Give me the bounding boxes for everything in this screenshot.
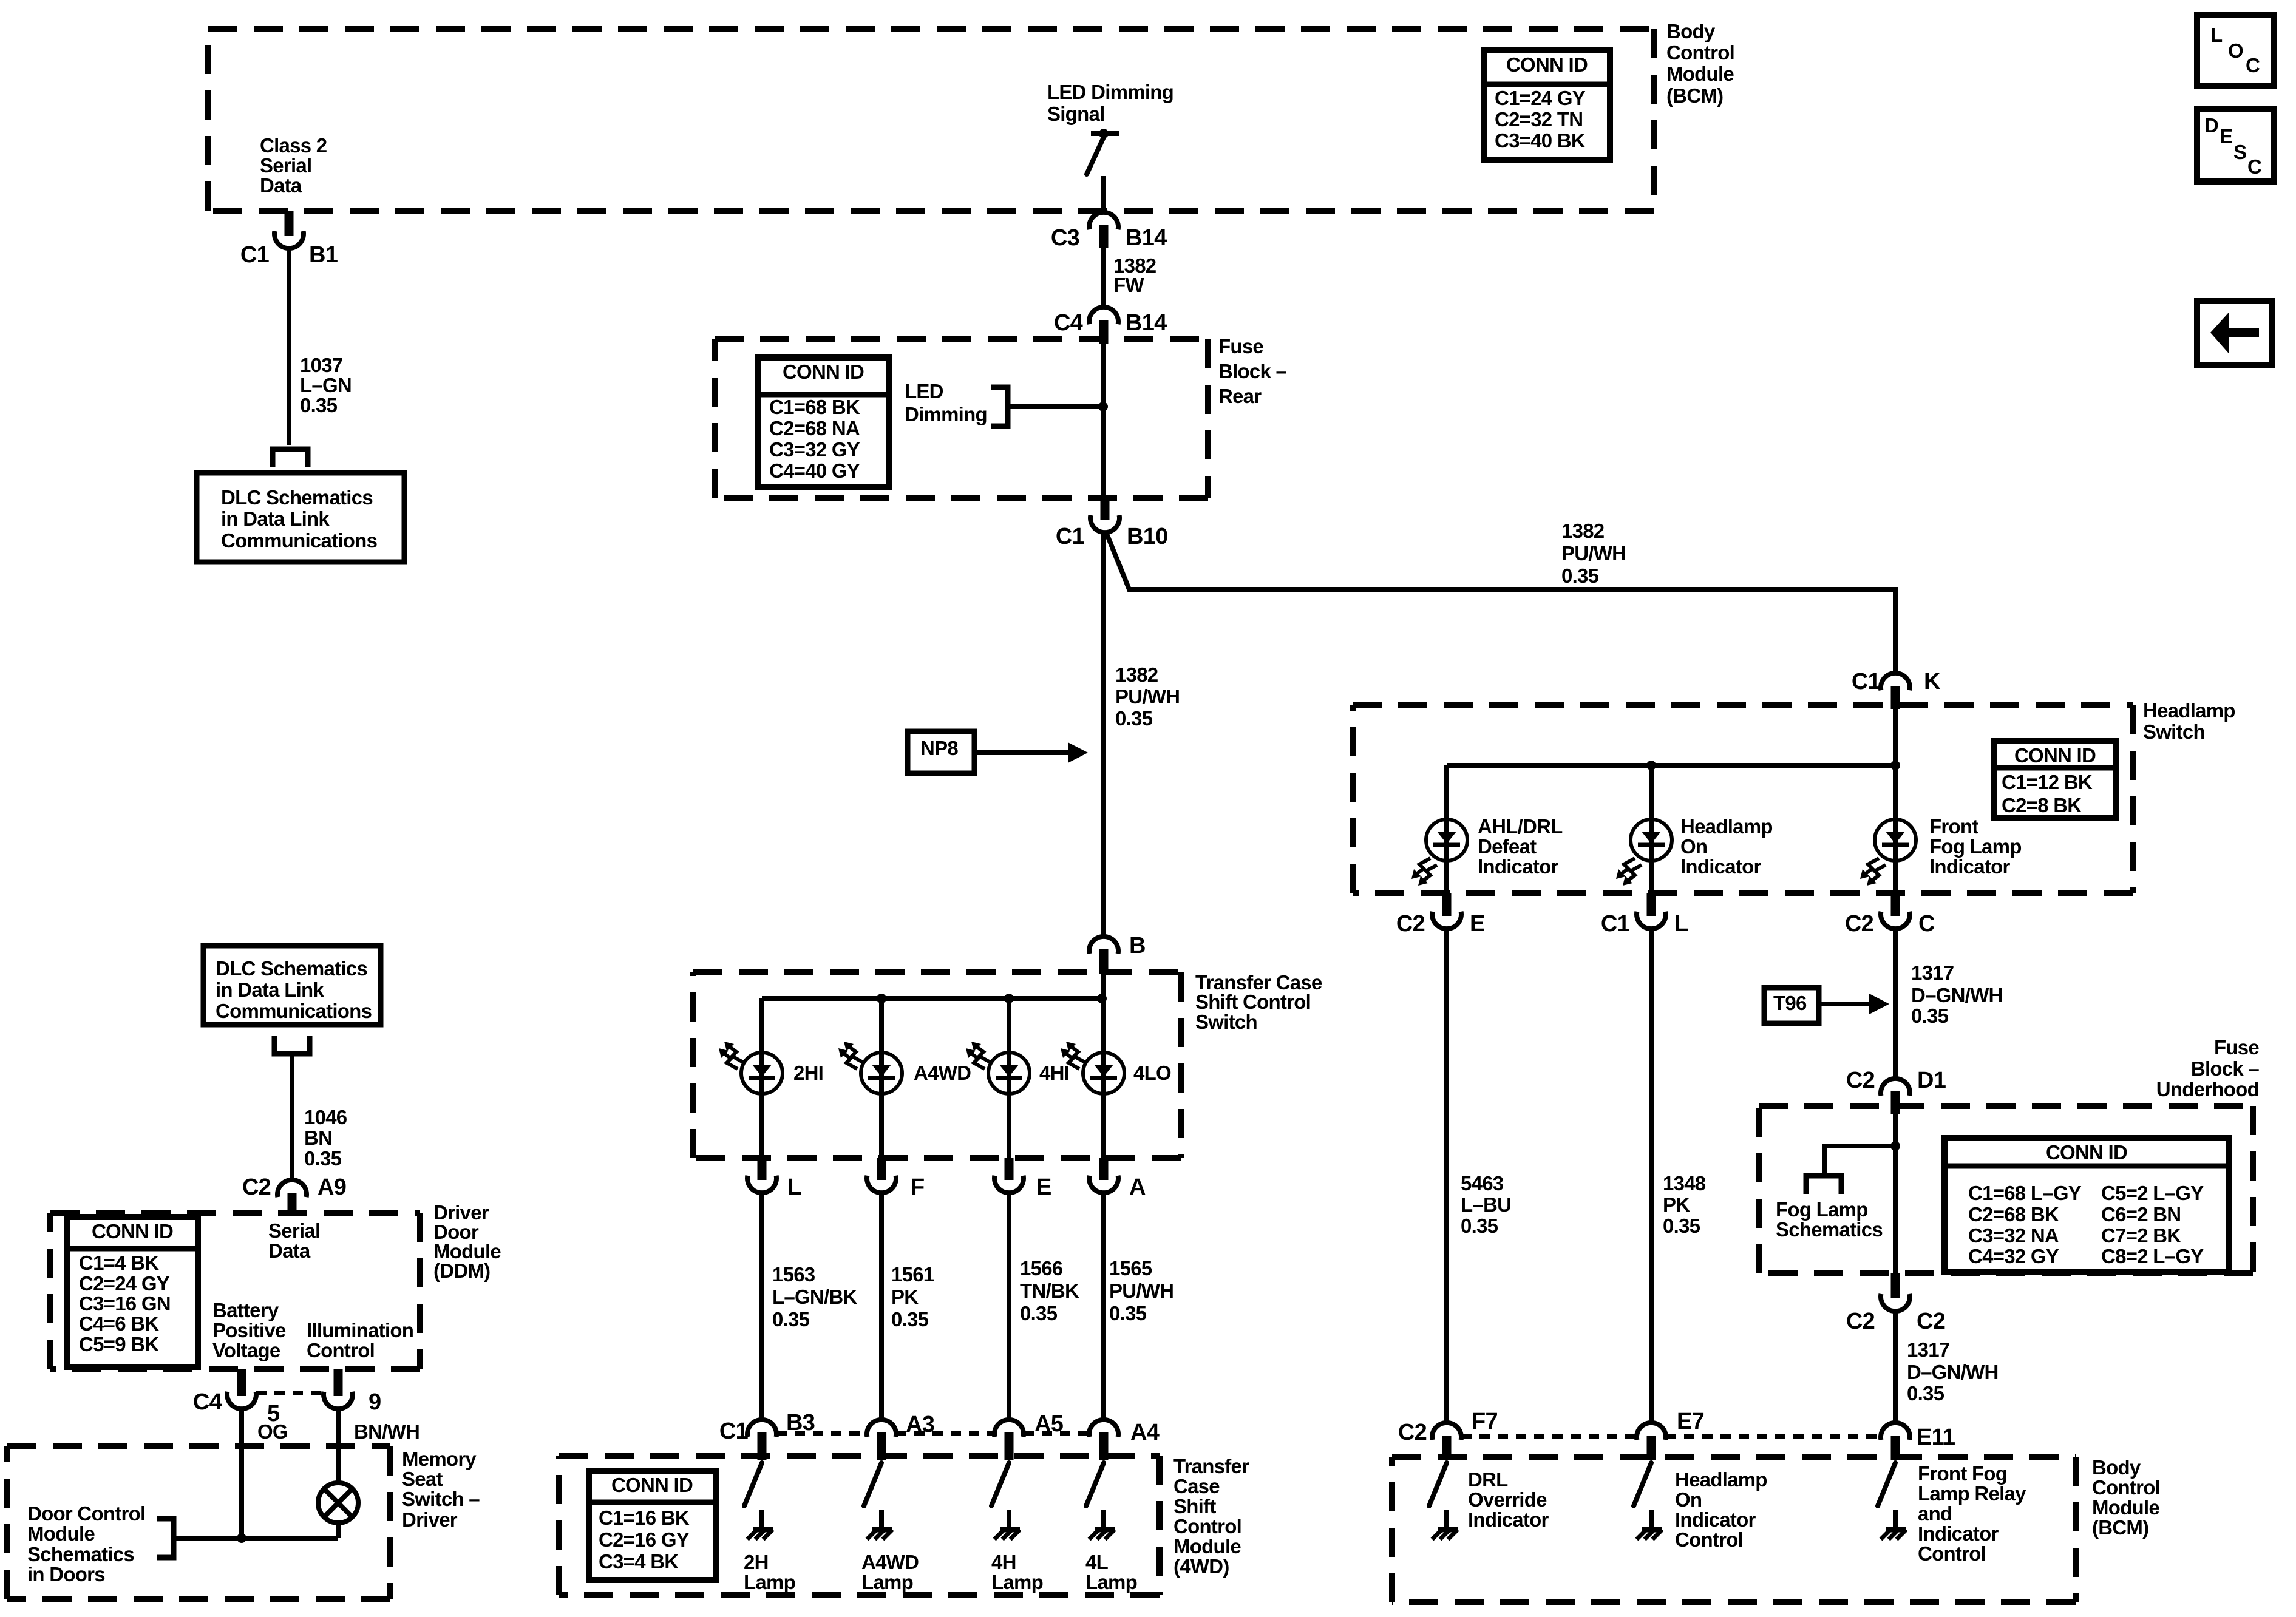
pin label 5 (267, 1401, 280, 1426)
wire: lamp to bus (336, 1523, 341, 1538)
svg-text:Signal: Signal (1047, 103, 1105, 125)
svg-text:Door Control: Door Control (27, 1502, 145, 1525)
pin label E7 (1677, 1409, 1704, 1434)
wire 9 BN/WH drop (336, 1409, 341, 1483)
svg-text:C3=32 GY: C3=32 GY (769, 438, 860, 461)
svg-text:A4WD: A4WD (861, 1551, 919, 1573)
label: Headlamp Switch (2143, 699, 2235, 743)
conn-id table: DDM (67, 1217, 198, 1367)
svg-text:LED Dimming: LED Dimming (1047, 81, 1173, 103)
svg-text:Headlamp: Headlamp (1675, 1468, 1767, 1491)
ground: headlamp on control (1637, 1510, 1662, 1539)
module box: Memory Seat Switch - Driver (7, 1446, 390, 1599)
svg-text:0.35: 0.35 (1911, 1005, 1949, 1027)
connector C2/A9 (277, 1180, 307, 1216)
svg-text:A4WD: A4WD (914, 1062, 971, 1084)
wire 1382 FW (1101, 248, 1106, 307)
svg-text:Class 2: Class 2 (260, 134, 327, 157)
svg-text:Indicator: Indicator (1478, 855, 1559, 878)
pin label C4 (DDM) (193, 1389, 222, 1415)
svg-text:Control: Control (307, 1339, 375, 1361)
svg-text:1046: 1046 (304, 1106, 347, 1128)
svg-text:C: C (2247, 155, 2261, 178)
svg-text:CONN ID: CONN ID (92, 1220, 173, 1242)
svg-text:Illumination: Illumination (307, 1319, 413, 1341)
arrow: NP8 to wire (974, 742, 1088, 763)
junction: A4WD tap (877, 994, 886, 1003)
svg-text:Dimming: Dimming (905, 403, 987, 425)
svg-text:C3=4 BK: C3=4 BK (599, 1550, 679, 1573)
pin label B10 (1127, 524, 1167, 549)
svg-text:D–GN/WH: D–GN/WH (1907, 1361, 1999, 1383)
LED: Headlamp On Indicator (1616, 819, 1672, 886)
svg-text:C2: C2 (242, 1175, 271, 1200)
svg-text:1382: 1382 (1115, 663, 1158, 686)
svg-text:Indicator: Indicator (1680, 855, 1762, 878)
dotted connector line: DDM bottom (256, 1391, 324, 1395)
lamp: memory seat illumination (318, 1483, 358, 1523)
pin label B (1129, 933, 1146, 958)
svg-text:Lamp: Lamp (744, 1571, 795, 1593)
switch: 2H lamp driver (744, 1463, 762, 1506)
connector F (867, 1158, 896, 1193)
svg-text:C1: C1 (1056, 524, 1085, 549)
wire label: 1565 PU/WH 0.35 (1109, 1257, 1173, 1324)
svg-text:C1=16 BK: C1=16 BK (599, 1507, 690, 1529)
svg-text:B1: B1 (309, 242, 338, 268)
ground: 2H lamp driver (747, 1510, 773, 1539)
LED: 4HI indicator (966, 1042, 1030, 1094)
wire: LED dimming bracket to node (1008, 404, 1101, 409)
svg-text:2HI: 2HI (793, 1062, 823, 1084)
svg-text:Voltage: Voltage (212, 1339, 280, 1361)
svg-text:DLC Schematics: DLC Schematics (216, 957, 367, 980)
svg-text:L: L (787, 1175, 801, 1200)
svg-text:C2: C2 (1846, 1068, 1875, 1093)
wire label: 1037 L-GN 0.35 (300, 354, 352, 416)
svg-text:0.35: 0.35 (772, 1308, 810, 1331)
svg-text:CONN ID: CONN ID (783, 361, 864, 383)
label: DRL Override Indicator (1468, 1468, 1549, 1531)
svg-text:Transfer: Transfer (1173, 1455, 1249, 1477)
wire: 4HI drop (1007, 998, 1011, 1158)
svg-text:2H: 2H (744, 1551, 769, 1573)
connector C1/B10 (1090, 497, 1119, 532)
svg-text:Battery: Battery (212, 1299, 279, 1321)
svg-text:CONN ID: CONN ID (2046, 1141, 2127, 1164)
svg-text:PU/WH: PU/WH (1109, 1280, 1173, 1302)
connector C2/F7 (1432, 1423, 1461, 1460)
wire 1037 L-GN vertical (287, 248, 291, 445)
connector C2/C (1881, 893, 1910, 929)
svg-text:C4=6 BK: C4=6 BK (79, 1312, 159, 1335)
svg-text:C1=24 GY: C1=24 GY (1495, 87, 1586, 109)
label: Fuse Block - Underhood (2156, 1036, 2260, 1100)
pin label L (787, 1175, 801, 1200)
wire label: 1561 PK 0.35 (891, 1263, 934, 1331)
connector C4/5 (227, 1369, 256, 1409)
svg-text:AHL/DRL: AHL/DRL (1478, 815, 1563, 838)
svg-text:C1=12 BK: C1=12 BK (2002, 771, 2093, 793)
connector E7 (1637, 1423, 1666, 1460)
wire label: 1382 PU/WH 0.35 (branch) (1561, 520, 1626, 587)
label: Body Control Module (BCM) bottom (2092, 1456, 2160, 1539)
svg-text:C1: C1 (240, 242, 270, 268)
callout box: NP8 (908, 731, 974, 773)
switch: 4H lamp driver (991, 1463, 1009, 1506)
svg-text:4L: 4L (1085, 1551, 1109, 1573)
wire inside fuse block rear (1101, 340, 1106, 498)
svg-text:C2: C2 (1845, 911, 1873, 937)
svg-text:Headlamp: Headlamp (2143, 699, 2235, 722)
wire label: OG (257, 1420, 288, 1443)
box: DLC Schematics in Data Link Communications (bottom) (203, 946, 381, 1025)
svg-text:Shift: Shift (1173, 1495, 1216, 1517)
connector A3 (867, 1420, 896, 1460)
pin label C1 (B10) (1056, 524, 1085, 549)
wire inside fuse block underhood (1893, 1114, 1898, 1273)
svg-text:B10: B10 (1127, 524, 1167, 549)
pin label B14 (lower) (1126, 310, 1167, 336)
pin label B14 (upper) (1126, 225, 1167, 251)
svg-text:E: E (2220, 125, 2232, 147)
svg-text:E7: E7 (1677, 1409, 1704, 1434)
LED: 4LO indicator (1061, 1042, 1124, 1094)
svg-text:Schematics: Schematics (27, 1543, 134, 1565)
label: A4WD (914, 1062, 971, 1084)
wire: K stub to bus (1893, 709, 1898, 765)
svg-text:PU/WH: PU/WH (1561, 542, 1626, 564)
svg-text:1563: 1563 (772, 1263, 815, 1286)
wire 5 OG drop (239, 1409, 244, 1538)
wire: 4LO drop (1101, 998, 1106, 1158)
label: AHL/DRL Defeat Indicator (1478, 815, 1563, 878)
switch: headlamp on control (1634, 1463, 1651, 1506)
svg-text:(4WD): (4WD) (1173, 1555, 1229, 1578)
pin label 9 (369, 1389, 381, 1415)
wire: headlamp-on indicator drop (1649, 765, 1654, 893)
pin label C3 (1051, 225, 1079, 251)
svg-text:B14: B14 (1126, 310, 1167, 336)
switch: A4WD lamp driver (864, 1463, 881, 1506)
svg-text:B14: B14 (1126, 225, 1167, 251)
conn-id table: Fuse Block Underhood (1944, 1138, 2229, 1272)
label: Driver Door Module (DDM) (433, 1201, 501, 1282)
svg-text:1317: 1317 (1907, 1338, 1949, 1361)
label: 4HI (1039, 1062, 1069, 1084)
svg-text:Indicator: Indicator (1929, 855, 2011, 878)
module box: Driver Door Module (DDM) (50, 1213, 420, 1369)
svg-text:Indicator: Indicator (1675, 1508, 1756, 1531)
svg-text:Lamp: Lamp (991, 1571, 1043, 1593)
svg-text:Fuse: Fuse (1218, 335, 1263, 358)
svg-text:D1: D1 (1917, 1068, 1946, 1093)
label: Serial Data (268, 1219, 320, 1262)
connector A (1089, 1158, 1118, 1193)
svg-text:L–BU: L–BU (1461, 1193, 1511, 1216)
pin label F7 (1472, 1409, 1498, 1434)
svg-text:1565: 1565 (1109, 1257, 1152, 1280)
label: LED Dimming Signal (1047, 81, 1173, 125)
wire 1317 D-GN/WH upper (1893, 929, 1898, 1079)
junction: 4LO tap (1097, 994, 1107, 1003)
svg-text:in Data Link: in Data Link (216, 978, 324, 1001)
pin label C2 (A9) (242, 1175, 271, 1200)
svg-text:CONN ID: CONN ID (2014, 744, 2096, 767)
svg-text:Block –: Block – (1218, 360, 1287, 382)
junction: fog indicator tap (1890, 761, 1900, 770)
connector A4 (1089, 1420, 1118, 1460)
label: NP8 (920, 737, 958, 759)
svg-text:in Data Link: in Data Link (221, 507, 330, 530)
svg-text:C1: C1 (1852, 669, 1881, 694)
svg-text:On: On (1680, 835, 1707, 858)
svg-text:C2: C2 (1917, 1309, 1945, 1334)
pin label C2 (E) (1396, 911, 1425, 937)
conn-id table: Fuse Block Rear (758, 358, 889, 487)
module box: Fuse Block - Underhood (1759, 1106, 2253, 1273)
svg-text:L–GN/BK: L–GN/BK (772, 1286, 858, 1308)
svg-text:Lamp: Lamp (861, 1571, 913, 1593)
pin label B1 (right of C1/B1) (309, 242, 338, 268)
svg-text:4LO: 4LO (1133, 1062, 1171, 1084)
icon box: DESC (2197, 109, 2274, 181)
wire: switch to BCM edge (1101, 176, 1106, 212)
svg-text:(BCM): (BCM) (1666, 84, 1723, 107)
pin label E (1470, 911, 1485, 937)
svg-text:Seat: Seat (402, 1468, 443, 1490)
svg-text:Communications: Communications (216, 1000, 372, 1022)
label: Door Control Module Schematics in Doors (27, 1502, 145, 1585)
module box: Body Control Module (BCM) top (208, 29, 1654, 211)
svg-text:C8=2 L–GY: C8=2 L–GY (2101, 1245, 2204, 1267)
LED: Front Fog Lamp Indicator (1860, 819, 1916, 886)
svg-text:L: L (1674, 911, 1688, 937)
svg-text:0.35: 0.35 (891, 1308, 929, 1331)
svg-text:C2: C2 (1398, 1420, 1427, 1445)
wire 1561 PK (879, 1193, 884, 1420)
connector C2/E (1432, 893, 1461, 929)
svg-text:0.35: 0.35 (300, 394, 338, 416)
pin label D1 (1917, 1068, 1946, 1093)
svg-text:L–GN: L–GN (300, 374, 352, 396)
label: Front Fog Lamp Indicator (1929, 815, 2022, 878)
svg-text:1317: 1317 (1911, 961, 1954, 984)
connector C1/B3 (747, 1420, 776, 1460)
wire: branch to fog lamp schematics (1825, 1146, 1895, 1176)
pin label A9 (318, 1175, 346, 1200)
wire label: 1348 PK 0.35 (1663, 1172, 1706, 1237)
svg-text:1561: 1561 (891, 1263, 934, 1286)
svg-text:D–GN/WH: D–GN/WH (1911, 984, 2003, 1006)
svg-text:S: S (2233, 141, 2246, 163)
box: DLC Schematics in Data Link Communications (top) (197, 473, 404, 562)
wire: B stub to bus (1101, 974, 1106, 998)
wire 1348 PK (1649, 929, 1654, 1423)
svg-text:C3=16 GN: C3=16 GN (79, 1292, 171, 1315)
svg-text:C4=40 GY: C4=40 GY (769, 459, 860, 482)
conn-id table: Headlamp Switch (1994, 741, 2116, 818)
off-page bracket: fog lamp schematics (1806, 1176, 1841, 1194)
pin label C2 (D1) (1846, 1068, 1875, 1093)
callout box: T96 (1764, 988, 1819, 1023)
label: LED Dimming (fuse) (905, 380, 987, 425)
pin label F (911, 1175, 924, 1200)
svg-text:(DDM): (DDM) (433, 1259, 490, 1282)
svg-text:Switch –: Switch – (402, 1488, 480, 1510)
bus: headlamp indicators feed (1447, 763, 1895, 768)
icon box: back arrow (2197, 301, 2272, 365)
label: Illumination Control (307, 1319, 413, 1361)
svg-text:LED: LED (905, 380, 943, 402)
svg-text:Fuse: Fuse (2214, 1036, 2259, 1059)
bracket: door control module schematics (157, 1519, 174, 1558)
connector C4/B14 (1089, 307, 1118, 344)
ground: front fog control (1881, 1510, 1906, 1539)
pin label A (1129, 1175, 1146, 1200)
svg-text:Communications: Communications (221, 529, 377, 552)
label: Class 2 Serial Data (260, 134, 327, 197)
connector E11 (1881, 1423, 1910, 1460)
svg-text:Module: Module (2092, 1496, 2159, 1519)
svg-text:L: L (2210, 24, 2223, 46)
svg-text:Lamp Relay: Lamp Relay (1918, 1482, 2026, 1505)
svg-text:C3=40 BK: C3=40 BK (1495, 129, 1586, 152)
svg-text:E11: E11 (1917, 1425, 1955, 1450)
svg-text:1566: 1566 (1020, 1257, 1063, 1280)
switch: front fog control (1878, 1463, 1895, 1506)
svg-text:O: O (2228, 39, 2243, 62)
svg-text:Control: Control (1675, 1528, 1743, 1551)
svg-text:Module: Module (1666, 63, 1734, 85)
svg-text:Indicator: Indicator (1918, 1522, 1999, 1545)
svg-text:Underhood: Underhood (2156, 1078, 2259, 1100)
svg-text:0.35: 0.35 (1561, 564, 1599, 587)
wire 1317 D-GN/WH lower (1893, 1311, 1898, 1423)
wire: A4WD drop (879, 998, 884, 1158)
svg-text:C2=8 BK: C2=8 BK (2002, 794, 2082, 816)
label: 2H Lamp (744, 1551, 795, 1593)
svg-text:CONN ID: CONN ID (611, 1474, 693, 1496)
svg-text:C6=2 BN: C6=2 BN (2101, 1203, 2181, 1225)
svg-text:4HI: 4HI (1039, 1062, 1069, 1084)
svg-text:T96: T96 (1773, 992, 1807, 1014)
svg-text:C2=68 BK: C2=68 BK (1968, 1203, 2059, 1225)
svg-text:F: F (911, 1175, 924, 1200)
svg-text:Serial: Serial (268, 1219, 320, 1242)
module box: Fuse Block - Rear (715, 339, 1208, 498)
pin label C1 (L) (1601, 911, 1630, 937)
wire: door control bus (174, 1536, 338, 1541)
pin label C (1918, 911, 1935, 937)
svg-text:B: B (1129, 933, 1146, 958)
junction: OG tap (237, 1533, 246, 1543)
svg-text:FW: FW (1113, 274, 1144, 296)
label: Fuse Block - Rear (1218, 335, 1287, 407)
connector 9 (324, 1369, 353, 1409)
pin label K (1924, 669, 1941, 694)
svg-text:C1: C1 (1601, 911, 1630, 937)
svg-text:Positive: Positive (212, 1319, 286, 1341)
wire label: 5463 L-BU 0.35 (1461, 1172, 1511, 1237)
svg-text:Shift Control: Shift Control (1195, 991, 1311, 1013)
svg-text:C: C (1918, 911, 1935, 937)
pin label B3 (786, 1410, 815, 1436)
svg-text:Headlamp: Headlamp (1680, 815, 1773, 838)
svg-text:C2: C2 (1396, 911, 1425, 937)
svg-text:C3: C3 (1051, 225, 1079, 251)
pin label A5 (1034, 1411, 1064, 1437)
svg-text:Control: Control (1666, 41, 1734, 64)
svg-text:Data: Data (260, 174, 302, 197)
LED: AHL/DRL Defeat Indicator (1411, 819, 1467, 886)
svg-text:0.35: 0.35 (304, 1147, 342, 1170)
ground: 4L lamp driver (1089, 1510, 1115, 1539)
svg-text:E: E (1470, 911, 1485, 937)
svg-text:C1=4 BK: C1=4 BK (79, 1252, 159, 1274)
label: Transfer Case Shift Control Module (4WD) (1173, 1455, 1249, 1578)
svg-text:CONN ID: CONN ID (1506, 53, 1588, 76)
junction: headlamp-on tap (1646, 761, 1656, 770)
svg-text:TN/BK: TN/BK (1020, 1280, 1079, 1302)
svg-text:C1: C1 (719, 1419, 749, 1444)
svg-text:0.35: 0.35 (1109, 1302, 1147, 1324)
wire 1566 TN/BK (1007, 1193, 1011, 1420)
off-page bracket from DLC schematics (274, 1036, 310, 1054)
svg-text:PK: PK (1663, 1193, 1690, 1216)
svg-text:D: D (2204, 114, 2218, 137)
module box: Transfer Case Shift Control Switch (693, 972, 1181, 1158)
connector C2/D1 (1881, 1079, 1910, 1114)
svg-text:C1=68 L–GY: C1=68 L–GY (1968, 1182, 2082, 1204)
svg-text:A: A (1129, 1175, 1146, 1200)
svg-text:C2=32 TN: C2=32 TN (1495, 108, 1583, 131)
svg-text:PU/WH: PU/WH (1115, 685, 1180, 708)
svg-text:Lamp: Lamp (1085, 1571, 1137, 1593)
dotted connector line: BCM bottom (1461, 1434, 1881, 1439)
svg-text:BN: BN (304, 1127, 332, 1149)
wire 1382 PU/WH branch to headlamp switch (1106, 532, 1895, 673)
label: Fog Lamp Schematics (1776, 1198, 1883, 1241)
wire: AHL/DRL indicator drop (1444, 765, 1449, 893)
svg-text:Defeat: Defeat (1478, 835, 1537, 858)
svg-text:0.35: 0.35 (1907, 1382, 1944, 1405)
label: 4LO (1133, 1062, 1171, 1084)
svg-text:Serial: Serial (260, 154, 311, 177)
pin label E11 (1917, 1425, 1955, 1450)
svg-text:F7: F7 (1472, 1409, 1498, 1434)
svg-text:Control: Control (1918, 1542, 1986, 1565)
label: 4L Lamp (1085, 1551, 1137, 1593)
svg-text:Module: Module (1173, 1535, 1241, 1558)
label: Headlamp On Indicator (1680, 815, 1773, 878)
svg-text:A9: A9 (318, 1175, 346, 1200)
svg-text:Control: Control (1173, 1515, 1241, 1537)
connector L (747, 1158, 776, 1193)
pin label L (headlamp) (1674, 911, 1688, 937)
svg-text:Fog Lamp: Fog Lamp (1929, 835, 2022, 858)
svg-text:0.35: 0.35 (1461, 1215, 1498, 1237)
junction node: LED dimming tap (1098, 402, 1108, 412)
svg-text:1348: 1348 (1663, 1172, 1706, 1195)
svg-text:in Doors: in Doors (27, 1563, 105, 1585)
svg-text:Control: Control (2092, 1476, 2160, 1499)
connector A5 (994, 1420, 1024, 1460)
wire label: 1382 PU/WH 0.35 (main) (1115, 663, 1180, 730)
label: Memory Seat Switch - Driver (402, 1448, 480, 1531)
label: A4WD Lamp (861, 1551, 919, 1593)
label: Headlamp On Indicator Control (1675, 1468, 1767, 1551)
